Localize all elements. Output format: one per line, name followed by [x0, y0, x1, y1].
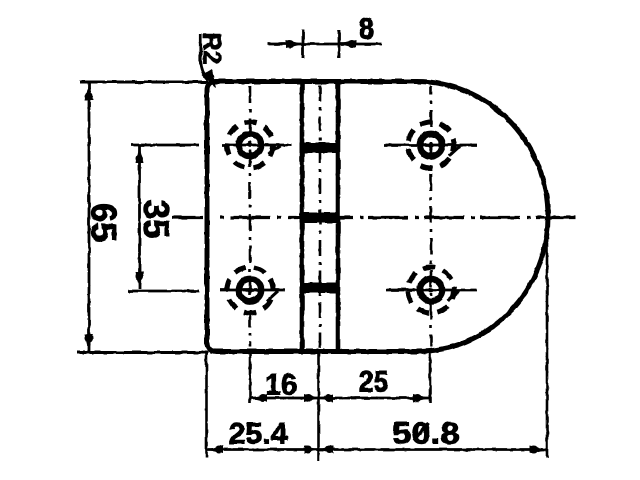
main horizontal centerline: [172, 216, 576, 219]
knuckle separator band middle: [300, 213, 341, 224]
dim 25.4-50.8 line: [207, 448, 548, 451]
extension line right apex down: [546, 222, 549, 458]
hole top-right: [408, 122, 454, 168]
svg-text:50.8: 50.8: [392, 416, 460, 451]
knuckle separator band bottom: [300, 283, 341, 294]
extension line right hole column down: [429, 352, 432, 403]
slashed zero mark: [414, 423, 428, 441]
dim 16 arrow left: [250, 394, 267, 402]
hole top-left: [227, 122, 273, 168]
hole bottom-left: [227, 267, 273, 313]
dim 35 arrow up: [136, 146, 144, 163]
hinge pin left line: [300, 81, 305, 351]
tick top-right hole: [449, 146, 460, 156]
tick bottom-right hole: [448, 291, 459, 301]
extension line hinge center down: [317, 352, 320, 461]
right holes vertical centerline: [430, 86, 433, 347]
dim 65 arrow down: [85, 334, 93, 351]
tick top-left hole: [268, 146, 280, 154]
svg-text:16: 16: [265, 369, 297, 402]
R2 leader arrowhead: [202, 69, 216, 88]
svg-text:65: 65: [84, 203, 123, 242]
svg-text:35: 35: [136, 200, 175, 239]
dim 50.8 arrow right: [530, 446, 547, 454]
hinge body outline: [207, 82, 548, 352]
hole bottom-left horizontal centerline: [220, 289, 285, 292]
dim 35 top extension line: [131, 144, 199, 147]
dim 16-25 line: [250, 397, 430, 400]
svg-text:R2: R2: [198, 33, 226, 65]
extension line left hole column down: [249, 352, 252, 403]
dim 8 arrow left-pointing: [339, 40, 356, 48]
svg-text:25: 25: [359, 366, 389, 399]
dim 35 arrow down: [136, 272, 144, 289]
dim 65 top extension line: [80, 81, 208, 84]
dim 8 line: [268, 43, 382, 46]
dim 65 bottom extension line: [77, 351, 208, 354]
dim 8 right extension: [338, 30, 341, 58]
svg-text:8: 8: [359, 13, 375, 46]
dim 35 bottom extension line: [128, 290, 199, 293]
hinge pin right line: [336, 81, 341, 351]
dim 25 arrow right: [413, 394, 430, 402]
dim 8 arrow right-pointing: [286, 40, 303, 48]
dim 35 line: [138, 146, 141, 289]
hole bottom-right horizontal centerline: [386, 289, 477, 292]
dim 65 arrow up: [85, 83, 93, 100]
pin vertical centerline: [319, 85, 322, 348]
dim 65 line: [88, 83, 91, 351]
R2 leader: [201, 34, 209, 80]
knuckle separator band top: [300, 143, 341, 154]
hole top-right horizontal centerline: [384, 144, 477, 147]
dim center arrows: [304, 446, 333, 454]
tick bottom-left hole: [267, 291, 278, 301]
extension line left edge down: [205, 353, 208, 458]
hole bottom-right: [408, 267, 454, 313]
dim 25.4 arrow left: [207, 446, 224, 454]
dim 8 left extension: [302, 30, 305, 58]
left holes vertical centerline: [249, 86, 252, 347]
dim 16-25 arrows center: [304, 394, 333, 402]
svg-text:25.4: 25.4: [229, 418, 288, 451]
hole top-left horizontal centerline: [222, 144, 292, 147]
